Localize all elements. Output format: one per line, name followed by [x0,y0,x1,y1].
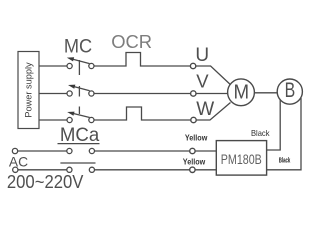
wire L1 MC to OCR bump and U terminal [94,53,190,67]
terminal V [191,91,196,96]
svg-text:Black: Black [279,156,291,165]
wire U terminal to motor [196,66,232,86]
terminal yellow line 1 [190,148,195,153]
wire L1 from power supply to MC [39,65,67,67]
wire control line 2 right of MCa [95,169,190,171]
wire control line 1 into PM180B [195,150,216,152]
contactor MC pole 3 [67,107,94,123]
wire control line 2 [18,169,67,171]
PM180B module [216,141,266,176]
wire motor to brake [255,92,277,94]
svg-text:MC: MC [64,36,92,57]
contact MCa pole 2 bar [60,162,95,164]
svg-text:Yellow: Yellow [185,134,208,143]
terminal W [191,117,196,122]
brake B [277,79,302,104]
wire control line 1 right of MCa [95,150,190,152]
wire L2 from power supply to MC [39,93,67,95]
svg-text:MCa: MCa [60,124,99,146]
terminal yellow line 2 [190,167,195,172]
wire W terminal to motor [196,103,230,121]
wire V terminal to motor [196,93,228,95]
terminal control line 2 left [13,167,18,172]
wire L2 MC to V terminal [94,93,191,95]
svg-text:B: B [285,79,296,102]
contact MCa pole 1 bar [58,143,100,145]
contact MCa pole 2 [67,167,95,172]
power supply box [18,52,39,129]
contactor MC pole 2 [67,85,94,97]
wire brake left lead to PM180B [267,98,281,150]
svg-text:200~220V: 200~220V [7,172,84,192]
wire control line 1 [18,150,67,152]
svg-text:M: M [234,80,250,103]
contact MCa pole 1 [67,148,95,153]
svg-text:V: V [196,70,209,91]
svg-text:PM180B: PM180B [221,151,262,167]
svg-text:OCR: OCR [111,31,152,52]
wire control line 2 into PM180B [195,169,216,171]
terminal U [190,63,195,68]
contactor MC pole 1 [67,57,94,75]
wire L3 from power supply to MC [39,119,67,121]
wire L3 MC to OCR bump and W terminal [94,107,191,120]
svg-text:AC: AC [9,154,28,169]
wire brake right lead to PM180B [267,98,301,170]
svg-text:W: W [196,99,214,120]
terminal control line 1 left [12,148,17,153]
motor M [228,79,255,106]
svg-text:Power supply: Power supply [24,62,34,118]
svg-text:Yellow: Yellow [183,158,206,167]
svg-text:U: U [195,45,209,66]
svg-text:Black: Black [251,128,270,138]
